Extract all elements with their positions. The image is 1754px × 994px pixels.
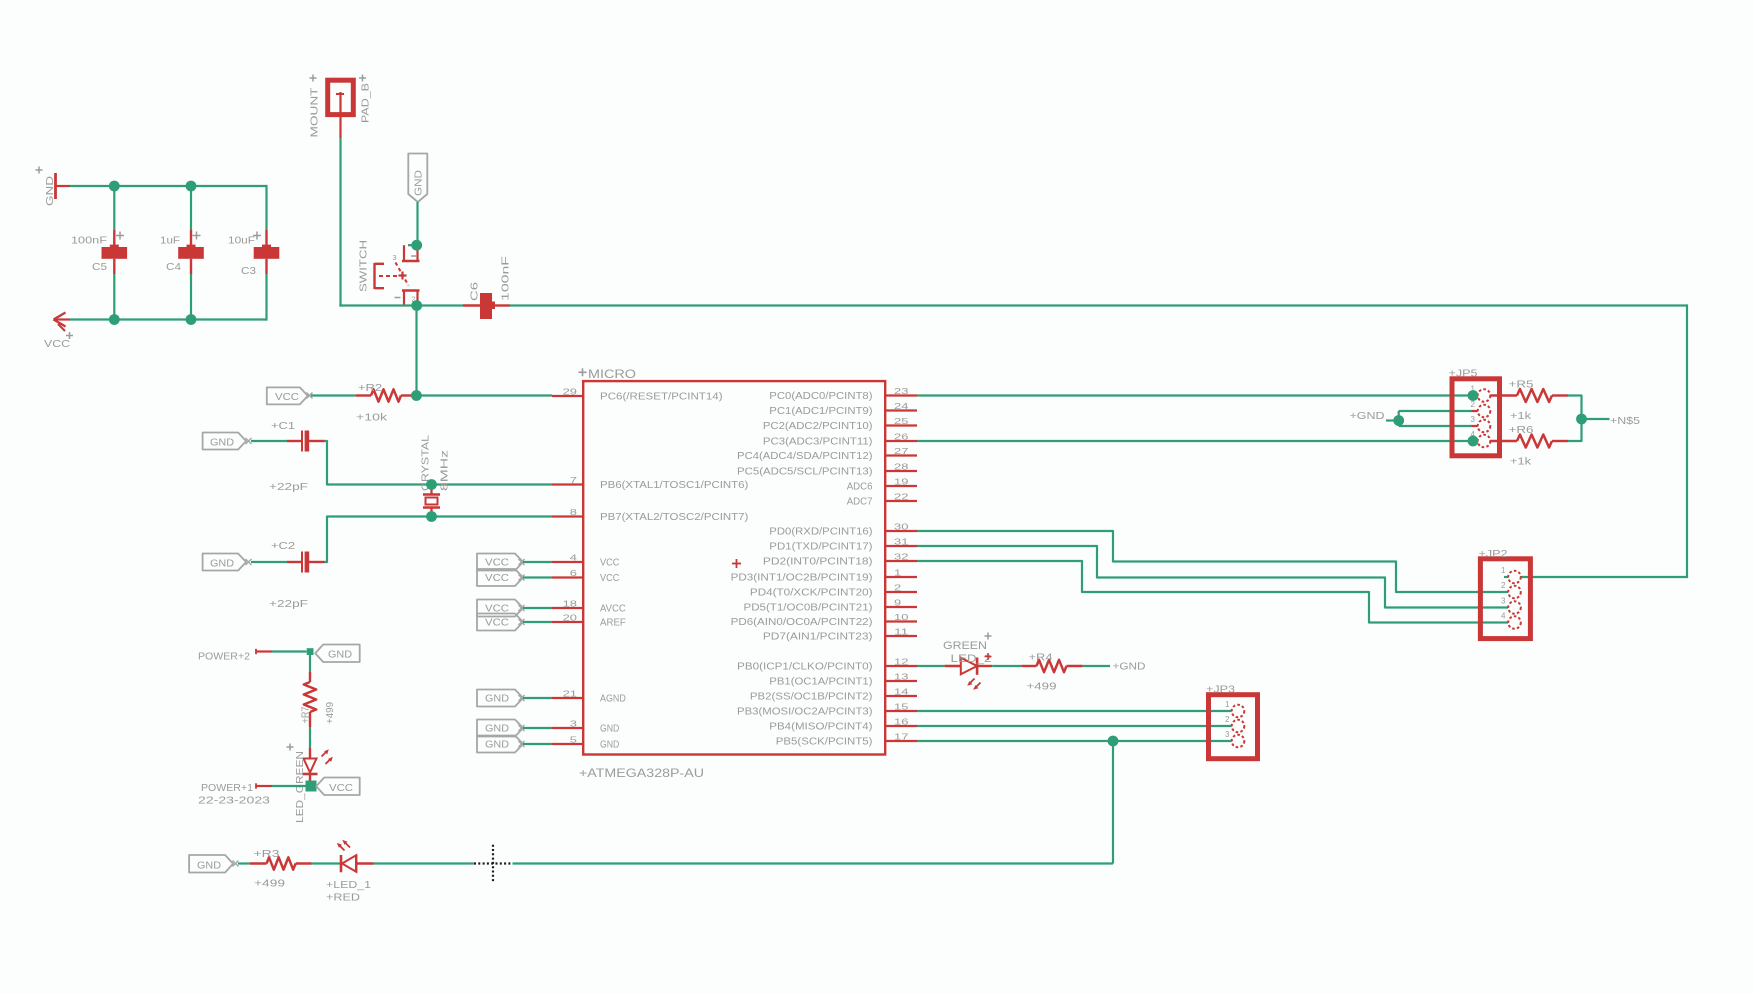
pin 18 (AVCC) left stub (552, 600, 626, 615)
pin 30 (PD0(RXD/PCINT16)) right stub (769, 523, 917, 538)
svg-text:MOUNT: MOUNT (309, 87, 321, 138)
junction (R2 / reset node) (411, 390, 422, 401)
pin 11 (PD7(AIN1/PCINT23)) right stub (763, 628, 917, 643)
junction (POWER+2 node) (307, 648, 314, 655)
svg-text:2: 2 (894, 584, 902, 593)
svg-text:24: 24 (894, 402, 909, 411)
wire GND top rail (70, 185, 267, 187)
LED LED_GREEN (vertical) (287, 744, 333, 824)
svg-text:PC6(/RESET/PCINT14): PC6(/RESET/PCINT14) (600, 392, 723, 403)
junction (XTAL1 node) (426, 479, 437, 490)
supply tag GND (AGND pin 21) (477, 690, 552, 707)
svg-text:19: 19 (894, 478, 909, 487)
svg-text:GND: GND (600, 724, 619, 735)
svg-text:AGND: AGND (600, 694, 626, 705)
junction (C4 bottom) (186, 314, 197, 325)
wire VCC tag to R2 (311, 394, 356, 396)
resistor R6 1k (1490, 424, 1568, 468)
svg-text:VCC: VCC (329, 783, 353, 794)
svg-text:MICRO: MICRO (588, 369, 636, 381)
svg-text:POWER+1: POWER+1 (201, 782, 253, 794)
svg-text:12: 12 (894, 658, 909, 667)
junction (JP5 pin 4) (1468, 436, 1479, 447)
svg-text:+1k: +1k (1510, 410, 1532, 422)
wire PB4 to JP3 pin 2 (917, 725, 1232, 727)
supply tag GND (pin 3) (477, 720, 552, 737)
node GND (LED_2) label (1083, 661, 1146, 673)
capacitor C2 22pF (251, 540, 325, 610)
svg-text:+499: +499 (324, 702, 336, 724)
svg-text:GND: GND (44, 175, 56, 206)
svg-text:26: 26 (894, 433, 909, 442)
svg-text:+R6: +R6 (1509, 424, 1534, 436)
svg-text:+JP2: +JP2 (1479, 548, 1508, 560)
crystal Q1 8MHz (420, 435, 451, 517)
svg-text:VCC: VCC (485, 573, 509, 584)
capacitor C1 22pF (251, 420, 325, 493)
wire GND tag to R3 (238, 862, 250, 864)
svg-text:3: 3 (1501, 597, 1506, 606)
svg-text:+R3: +R3 (254, 848, 280, 860)
pin 17 (PB5(SCK/PCINT5)) right stub (776, 733, 917, 748)
svg-text:+LED_1: +LED_1 (326, 879, 371, 891)
svg-text:4: 4 (1501, 612, 1506, 621)
svg-text:PB3(MOSI/OC2A/PCINT3): PB3(MOSI/OC2A/PCINT3) (737, 707, 872, 718)
pin 1 (PD3(INT1/OC2B/PCINT19)) right stub (731, 569, 917, 584)
svg-text:9: 9 (894, 599, 902, 608)
pin 16 (PB4(MISO/PCINT4)) right stub (769, 718, 917, 733)
supply tag VCC (pin 4) (477, 554, 552, 571)
svg-text:3: 3 (392, 253, 396, 262)
pin 12 (PB0(ICP1/CLKO/PCINT0)) right stub (737, 658, 917, 673)
supply tag VCC (power LED) (316, 778, 360, 796)
wire reset node to IC pin 29 (416, 394, 552, 396)
wire POWER+2 to GND tag (272, 650, 307, 652)
svg-text:PB1(OC1A/PCINT1): PB1(OC1A/PCINT1) (769, 677, 872, 688)
svg-text:16: 16 (894, 718, 909, 727)
pin 29 (PC6(/RESET/PCINT14)) left stub (552, 388, 723, 403)
pin 2 (PD4(T0/XCK/PCINT20)) right stub (750, 584, 917, 599)
svg-text:2: 2 (1225, 715, 1230, 724)
svg-text:27: 27 (894, 447, 909, 456)
node POWER+1 pin (201, 782, 306, 794)
svg-text:+JP5: +JP5 (1449, 368, 1478, 380)
svg-text:PD0(RXD/PCINT16): PD0(RXD/PCINT16) (769, 527, 872, 538)
wire LED_1 to PB5 branch (374, 862, 1113, 864)
wire R3 to LED_1 (312, 862, 341, 864)
svg-text:3: 3 (1471, 415, 1476, 424)
svg-text:31: 31 (894, 538, 909, 547)
pin 8 (PB7(XTAL2/TOSC2/PCINT7)) left stub (552, 508, 748, 523)
resistor R5 1k (1490, 379, 1568, 423)
svg-text:PC3(ADC3/PCINT11): PC3(ADC3/PCINT11) (763, 437, 873, 448)
text date (198, 795, 270, 807)
pin 26 (PC3(ADC3/PCINT11)) right stub (763, 433, 917, 448)
svg-text:+R5: +R5 (1509, 379, 1534, 391)
pin 14 (PB2(SS/OC1B/PCINT2)) right stub (750, 688, 917, 703)
node N$5 net + junction (1568, 396, 1640, 442)
junction (C5 bottom) (109, 314, 120, 325)
pin 10 (PD6(AIN0/OC0A/PCINT22)) right stub (731, 613, 917, 628)
svg-text:+22pF: +22pF (269, 481, 308, 493)
svg-text:1: 1 (894, 569, 902, 578)
svg-text:PC5(ADC5/SCL/PCINT13): PC5(ADC5/SCL/PCINT13) (737, 467, 872, 478)
wire PC0 to JP5 pin 1 (917, 394, 1472, 396)
wire C4 branch (190, 186, 192, 320)
svg-text:GND: GND (210, 438, 234, 449)
wire LED_2 to R4 (992, 665, 1021, 667)
svg-text:GND: GND (210, 559, 234, 570)
junction (C4 top) (186, 181, 197, 192)
svg-text:VCC: VCC (600, 558, 619, 569)
svg-text:AREF: AREF (600, 618, 626, 629)
svg-text:8MHz: 8MHz (439, 450, 451, 491)
wire PD2 to JP2 pin 4 (917, 561, 1508, 623)
junction (switch pin 2) (411, 300, 422, 311)
junction (POWER+1 node) (306, 781, 317, 792)
svg-text:PD4(T0/XCK/PCINT20): PD4(T0/XCK/PCINT20) (750, 588, 873, 599)
svg-text:+499: +499 (254, 878, 285, 890)
svg-text:13: 13 (894, 673, 909, 682)
pin 5 (GND) left stub (552, 736, 619, 751)
svg-text:PAD_B: PAD_B (360, 83, 372, 123)
svg-text:+N$5: +N$5 (1610, 415, 1640, 427)
svg-text:14: 14 (894, 688, 909, 697)
svg-text:PD7(AIN1/PCINT23): PD7(AIN1/PCINT23) (763, 632, 873, 643)
svg-text:32: 32 (894, 553, 909, 562)
svg-text:1: 1 (1225, 700, 1230, 709)
svg-text:PC2(ADC2/PCINT10): PC2(ADC2/PCINT10) (763, 421, 873, 432)
wire C6 to right vertical (net to JP2 pin 1) (510, 304, 1688, 577)
capacitor C5 100nF (71, 230, 127, 274)
svg-text:3: 3 (570, 720, 578, 729)
svg-text:C6: C6 (469, 282, 481, 301)
svg-text:+JP3: +JP3 (1206, 684, 1235, 696)
svg-text:GND: GND (197, 861, 221, 872)
svg-text:17: 17 (894, 733, 909, 742)
junction (C5 top) (109, 181, 120, 192)
supply tag VCC (AVCC pin 18) (477, 600, 552, 617)
junction (XTAL2 node) (426, 511, 437, 522)
wire VCC bottom rail (70, 318, 267, 320)
wire PB5 to JP3 pin 3 (with LED branch junction) (917, 740, 1232, 742)
svg-text:4: 4 (570, 554, 578, 563)
mounting pad PAD_B (309, 75, 372, 138)
svg-text:GREEN: GREEN (943, 640, 987, 652)
svg-text:+1k: +1k (1510, 456, 1532, 468)
svg-text:GND: GND (600, 740, 619, 751)
svg-text:PB2(SS/OC1B/PCINT2): PB2(SS/OC1B/PCINT2) (750, 692, 873, 703)
pin 4 (VCC) left stub (552, 554, 619, 569)
wire PD1 to JP2 pin 3 (917, 546, 1508, 608)
svg-text:20: 20 (563, 614, 578, 623)
connector JP3 (1206, 684, 1258, 759)
supply tag GND (LED_1) (189, 855, 238, 873)
svg-text:PD6(AIN0/OC0A/PCINT22): PD6(AIN0/OC0A/PCINT22) (731, 617, 873, 628)
wire C5 branch (113, 186, 115, 320)
resistor R2 10k (356, 382, 416, 424)
svg-text:18: 18 (563, 600, 578, 609)
pin 19 (ADC6) right stub (847, 478, 917, 493)
svg-text:POWER+2: POWER+2 (198, 651, 250, 663)
svg-text:PB4(MISO/PCINT4): PB4(MISO/PCINT4) (769, 722, 872, 733)
supply tag VCC (AREF pin 20) (477, 614, 552, 631)
svg-text:+499: +499 (1027, 681, 1057, 693)
svg-text:VCC: VCC (600, 573, 619, 584)
pin 22 (ADC7) right stub (847, 493, 917, 508)
pin 3 (GND) left stub (552, 720, 619, 735)
svg-text:11: 11 (894, 628, 909, 637)
junction (PB5 / LED_1 branch) (1108, 736, 1119, 747)
op-amp U1 MICRO body (ATMEGA328P-AU) (579, 368, 886, 780)
wire reset node to switch (415, 306, 417, 396)
node POWER+2 pin (198, 649, 272, 663)
wire R7 to LED_GREEN (309, 727, 311, 748)
svg-text:PB0(ICP1/CLKO/PCINT0): PB0(ICP1/CLKO/PCINT0) (737, 662, 872, 673)
svg-text:100nF: 100nF (500, 256, 512, 301)
svg-text:25: 25 (894, 417, 909, 426)
pin 31 (PD1(TXD/PCINT17)) right stub (769, 538, 917, 553)
LED LED_1 RED (326, 840, 374, 904)
svg-text:+R4: +R4 (1029, 652, 1053, 664)
svg-text:+C2: +C2 (271, 540, 295, 552)
svg-text:21: 21 (563, 690, 578, 699)
wire PB0 to LED_2 (917, 665, 945, 667)
svg-text:PD2(INT0/PCINT18): PD2(INT0/PCINT18) (763, 557, 873, 568)
svg-text:C5: C5 (92, 261, 107, 273)
pin 23 (PC0(ADC0/PCINT8)) right stub (769, 387, 917, 402)
cursor crosshair (474, 845, 513, 884)
svg-text:22: 22 (894, 493, 909, 502)
supply tag VCC (reset pull-up) (267, 387, 313, 404)
svg-text:GND: GND (485, 740, 509, 751)
svg-text:GND: GND (328, 650, 352, 661)
svg-text:23: 23 (894, 387, 909, 396)
pin 25 (PC2(ADC2/PCINT10)) right stub (763, 417, 917, 432)
svg-text:PC1(ADC1/PCINT9): PC1(ADC1/PCINT9) (769, 406, 872, 417)
supply tag GND (power LED) (315, 645, 360, 663)
svg-text:VCC: VCC (44, 338, 70, 350)
supply tag GND (above switch) (408, 154, 427, 203)
svg-text:VCC: VCC (275, 392, 299, 403)
svg-text:30: 30 (894, 523, 909, 532)
resistor R7 499 (vertical) (300, 672, 337, 727)
switch SWITCH (358, 240, 420, 305)
svg-text:28: 28 (894, 463, 909, 472)
svg-text:29: 29 (563, 388, 578, 397)
svg-text:+10k: +10k (356, 412, 388, 424)
svg-text:VCC: VCC (485, 558, 509, 569)
svg-text:PD1(TXD/PCINT17): PD1(TXD/PCINT17) (769, 542, 872, 553)
supply tag GND (pin 5) (477, 736, 552, 753)
svg-text:+GND: +GND (1113, 661, 1146, 673)
supply tag GND (C2) (203, 554, 252, 571)
supply tag GND (C1) (203, 433, 252, 450)
svg-text:C4: C4 (166, 261, 181, 273)
svg-text:ADC7: ADC7 (847, 497, 873, 508)
supply tag VCC (pin 6) (477, 569, 552, 586)
svg-text:22-23-2023: 22-23-2023 (198, 795, 270, 807)
svg-text:1uF: 1uF (160, 235, 180, 247)
pin 27 (PC4(ADC4/SDA/PCINT12)) right stub (737, 447, 917, 462)
pin 24 (PC1(ADC1/PCINT9)) right stub (769, 402, 917, 417)
svg-text:+RED: +RED (326, 892, 360, 904)
svg-text:+R2: +R2 (358, 382, 382, 394)
wire PD0 to JP2 pin 2 (917, 531, 1508, 592)
wire GND tag to switch pin 3 (416, 202, 418, 245)
LED LED_2 GREEN (943, 633, 992, 690)
junction (JP5 pin 1) (1468, 390, 1479, 401)
resistor R3 499 (250, 848, 312, 890)
wire GND tag down to R7 (309, 650, 311, 672)
svg-text:+R7: +R7 (300, 706, 312, 723)
pin 9 (PD5(T1/OC0B/PCINT21)) right stub (744, 599, 918, 614)
ground symbol GND (cap bank supply) (36, 167, 71, 207)
svg-text:LED_2: LED_2 (951, 653, 992, 665)
svg-text:GND: GND (414, 170, 425, 196)
resistor R4 499 (1021, 652, 1083, 693)
wire junction down to LED_1 net (1112, 741, 1114, 864)
svg-text:ADC6: ADC6 (847, 482, 873, 493)
pin 20 (AREF) left stub (552, 614, 626, 629)
svg-text:10: 10 (894, 613, 909, 622)
svg-text:+ATMEGA328P-AU: +ATMEGA328P-AU (579, 768, 704, 780)
wire C3 branch (right rail riser) (265, 185, 267, 321)
svg-text:10uF: 10uF (228, 235, 255, 247)
svg-text:5: 5 (570, 736, 578, 745)
svg-text:+GND: +GND (1350, 410, 1385, 422)
pin 13 (PB1(OC1A/PCINT1)) right stub (769, 673, 917, 688)
wire PB3 to JP3 pin 1 (917, 710, 1232, 712)
svg-text:+C1: +C1 (271, 420, 295, 432)
wire PC3 to JP5 pin 4 (917, 440, 1472, 442)
wire C2 to crystal/XTAL2 (325, 517, 553, 563)
svg-text:VCC: VCC (485, 618, 509, 629)
pin 7 (PB6(XTAL1/TOSC1/PCINT6)) left stub (552, 476, 748, 491)
vcc symbol VCC (cap bank supply) (44, 313, 73, 351)
svg-text:C3: C3 (241, 265, 256, 277)
connector JP2 (1479, 548, 1531, 639)
wire C1 to crystal/XTAL1 (325, 441, 553, 485)
svg-text:+22pF: +22pF (269, 598, 308, 610)
svg-text:PD5(T1/OC0B/PCINT21): PD5(T1/OC0B/PCINT21) (744, 603, 873, 614)
svg-text:GND: GND (485, 694, 509, 705)
junction (switch pin 3) (411, 240, 422, 251)
svg-text:PC0(ADC0/PCINT8): PC0(ADC0/PCINT8) (769, 391, 872, 402)
wire switch to C6 (417, 304, 463, 306)
wire PAD_B to switch net (339, 117, 416, 307)
svg-text:3: 3 (1225, 730, 1230, 739)
svg-text:PC4(ADC4/SDA/PCINT12): PC4(ADC4/SDA/PCINT12) (737, 451, 872, 462)
capacitor C6 100nF (463, 256, 512, 319)
pin 21 (AGND) left stub (552, 690, 626, 705)
svg-text:15: 15 (894, 703, 909, 712)
capacitor C4 1uF (160, 230, 204, 274)
svg-text:SWITCH: SWITCH (358, 240, 370, 292)
svg-text:2: 2 (1501, 581, 1506, 590)
capacitor C3 10uF (228, 230, 279, 277)
svg-text:PB6(XTAL1/TOSC1/PCINT6): PB6(XTAL1/TOSC1/PCINT6) (600, 480, 748, 491)
connector JP5 (1449, 368, 1500, 456)
pin 15 (PB3(MOSI/OC2A/PCINT3)) right stub (737, 703, 917, 718)
svg-text:PB5(SCK/PCINT5): PB5(SCK/PCINT5) (776, 737, 873, 748)
svg-text:8: 8 (570, 508, 578, 517)
svg-text:GND: GND (485, 724, 509, 735)
svg-text:AVCC: AVCC (600, 604, 626, 615)
svg-text:100nF: 100nF (71, 235, 107, 247)
svg-text:6: 6 (570, 569, 578, 578)
svg-text:PB7(XTAL2/TOSC2/PCINT7): PB7(XTAL2/TOSC2/PCINT7) (600, 512, 748, 523)
node GND (JP5) label + junction (1350, 410, 1472, 426)
svg-text:PD3(INT1/OC2B/PCINT19): PD3(INT1/OC2B/PCINT19) (731, 573, 873, 584)
svg-text:7: 7 (570, 476, 578, 485)
pin 28 (PC5(ADC5/SCL/PCINT13)) right stub (737, 463, 917, 478)
svg-text:2: 2 (1471, 400, 1476, 409)
svg-text:1: 1 (1501, 566, 1506, 575)
pin 6 (VCC) left stub (552, 569, 619, 584)
pin 32 (PD2(INT0/PCINT18)) right stub (763, 553, 917, 568)
